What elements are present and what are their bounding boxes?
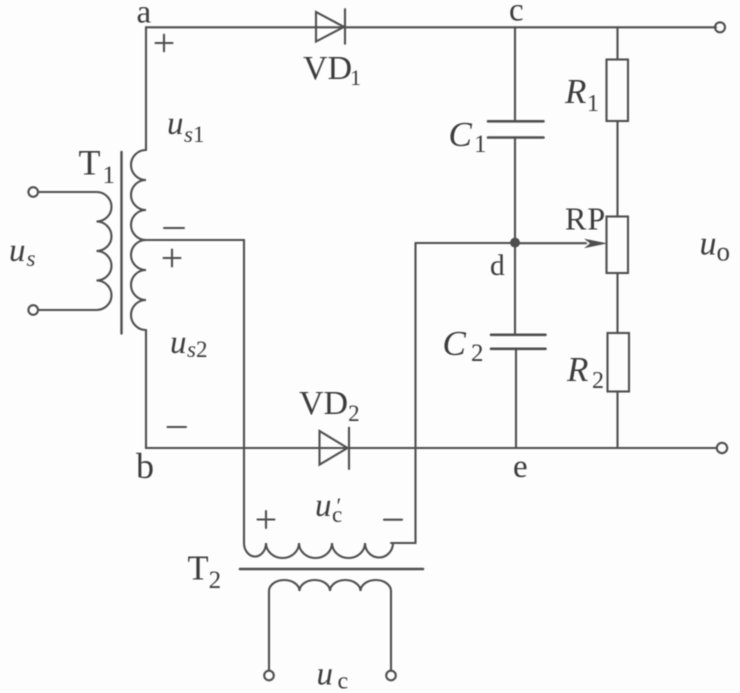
- svg-text:s2: s2: [187, 337, 207, 362]
- svg-text:2: 2: [592, 368, 604, 394]
- svg-text:C: C: [449, 115, 473, 154]
- svg-text:u: u: [315, 488, 332, 524]
- svg-text:1: 1: [587, 91, 599, 117]
- svg-text:o: o: [717, 237, 731, 267]
- svg-text:u: u: [167, 106, 184, 142]
- svg-text:VD2: VD2: [299, 385, 360, 426]
- svg-text:VD1: VD1: [303, 50, 361, 90]
- svg-text:u: u: [9, 233, 26, 269]
- svg-text:RP: RP: [565, 201, 606, 237]
- svg-text:c: c: [509, 0, 524, 28]
- svg-text:b: b: [136, 446, 154, 486]
- svg-text:T2: T2: [188, 550, 222, 595]
- svg-text:′: ′: [337, 493, 342, 518]
- svg-text:C: C: [443, 324, 467, 363]
- svg-text:s1: s1: [184, 122, 204, 147]
- svg-text:T1: T1: [79, 143, 116, 190]
- svg-text:R: R: [564, 72, 586, 111]
- svg-text:1: 1: [474, 131, 487, 158]
- svg-text:u: u: [170, 325, 187, 361]
- svg-text:R: R: [566, 350, 588, 389]
- svg-text:e: e: [513, 449, 528, 485]
- svg-text:2: 2: [471, 340, 484, 367]
- svg-text:s: s: [27, 246, 36, 271]
- svg-text:d: d: [490, 250, 505, 282]
- svg-text:u: u: [317, 657, 334, 693]
- svg-text:a: a: [137, 0, 152, 31]
- svg-text:c: c: [338, 669, 349, 693]
- svg-text:u: u: [700, 226, 717, 263]
